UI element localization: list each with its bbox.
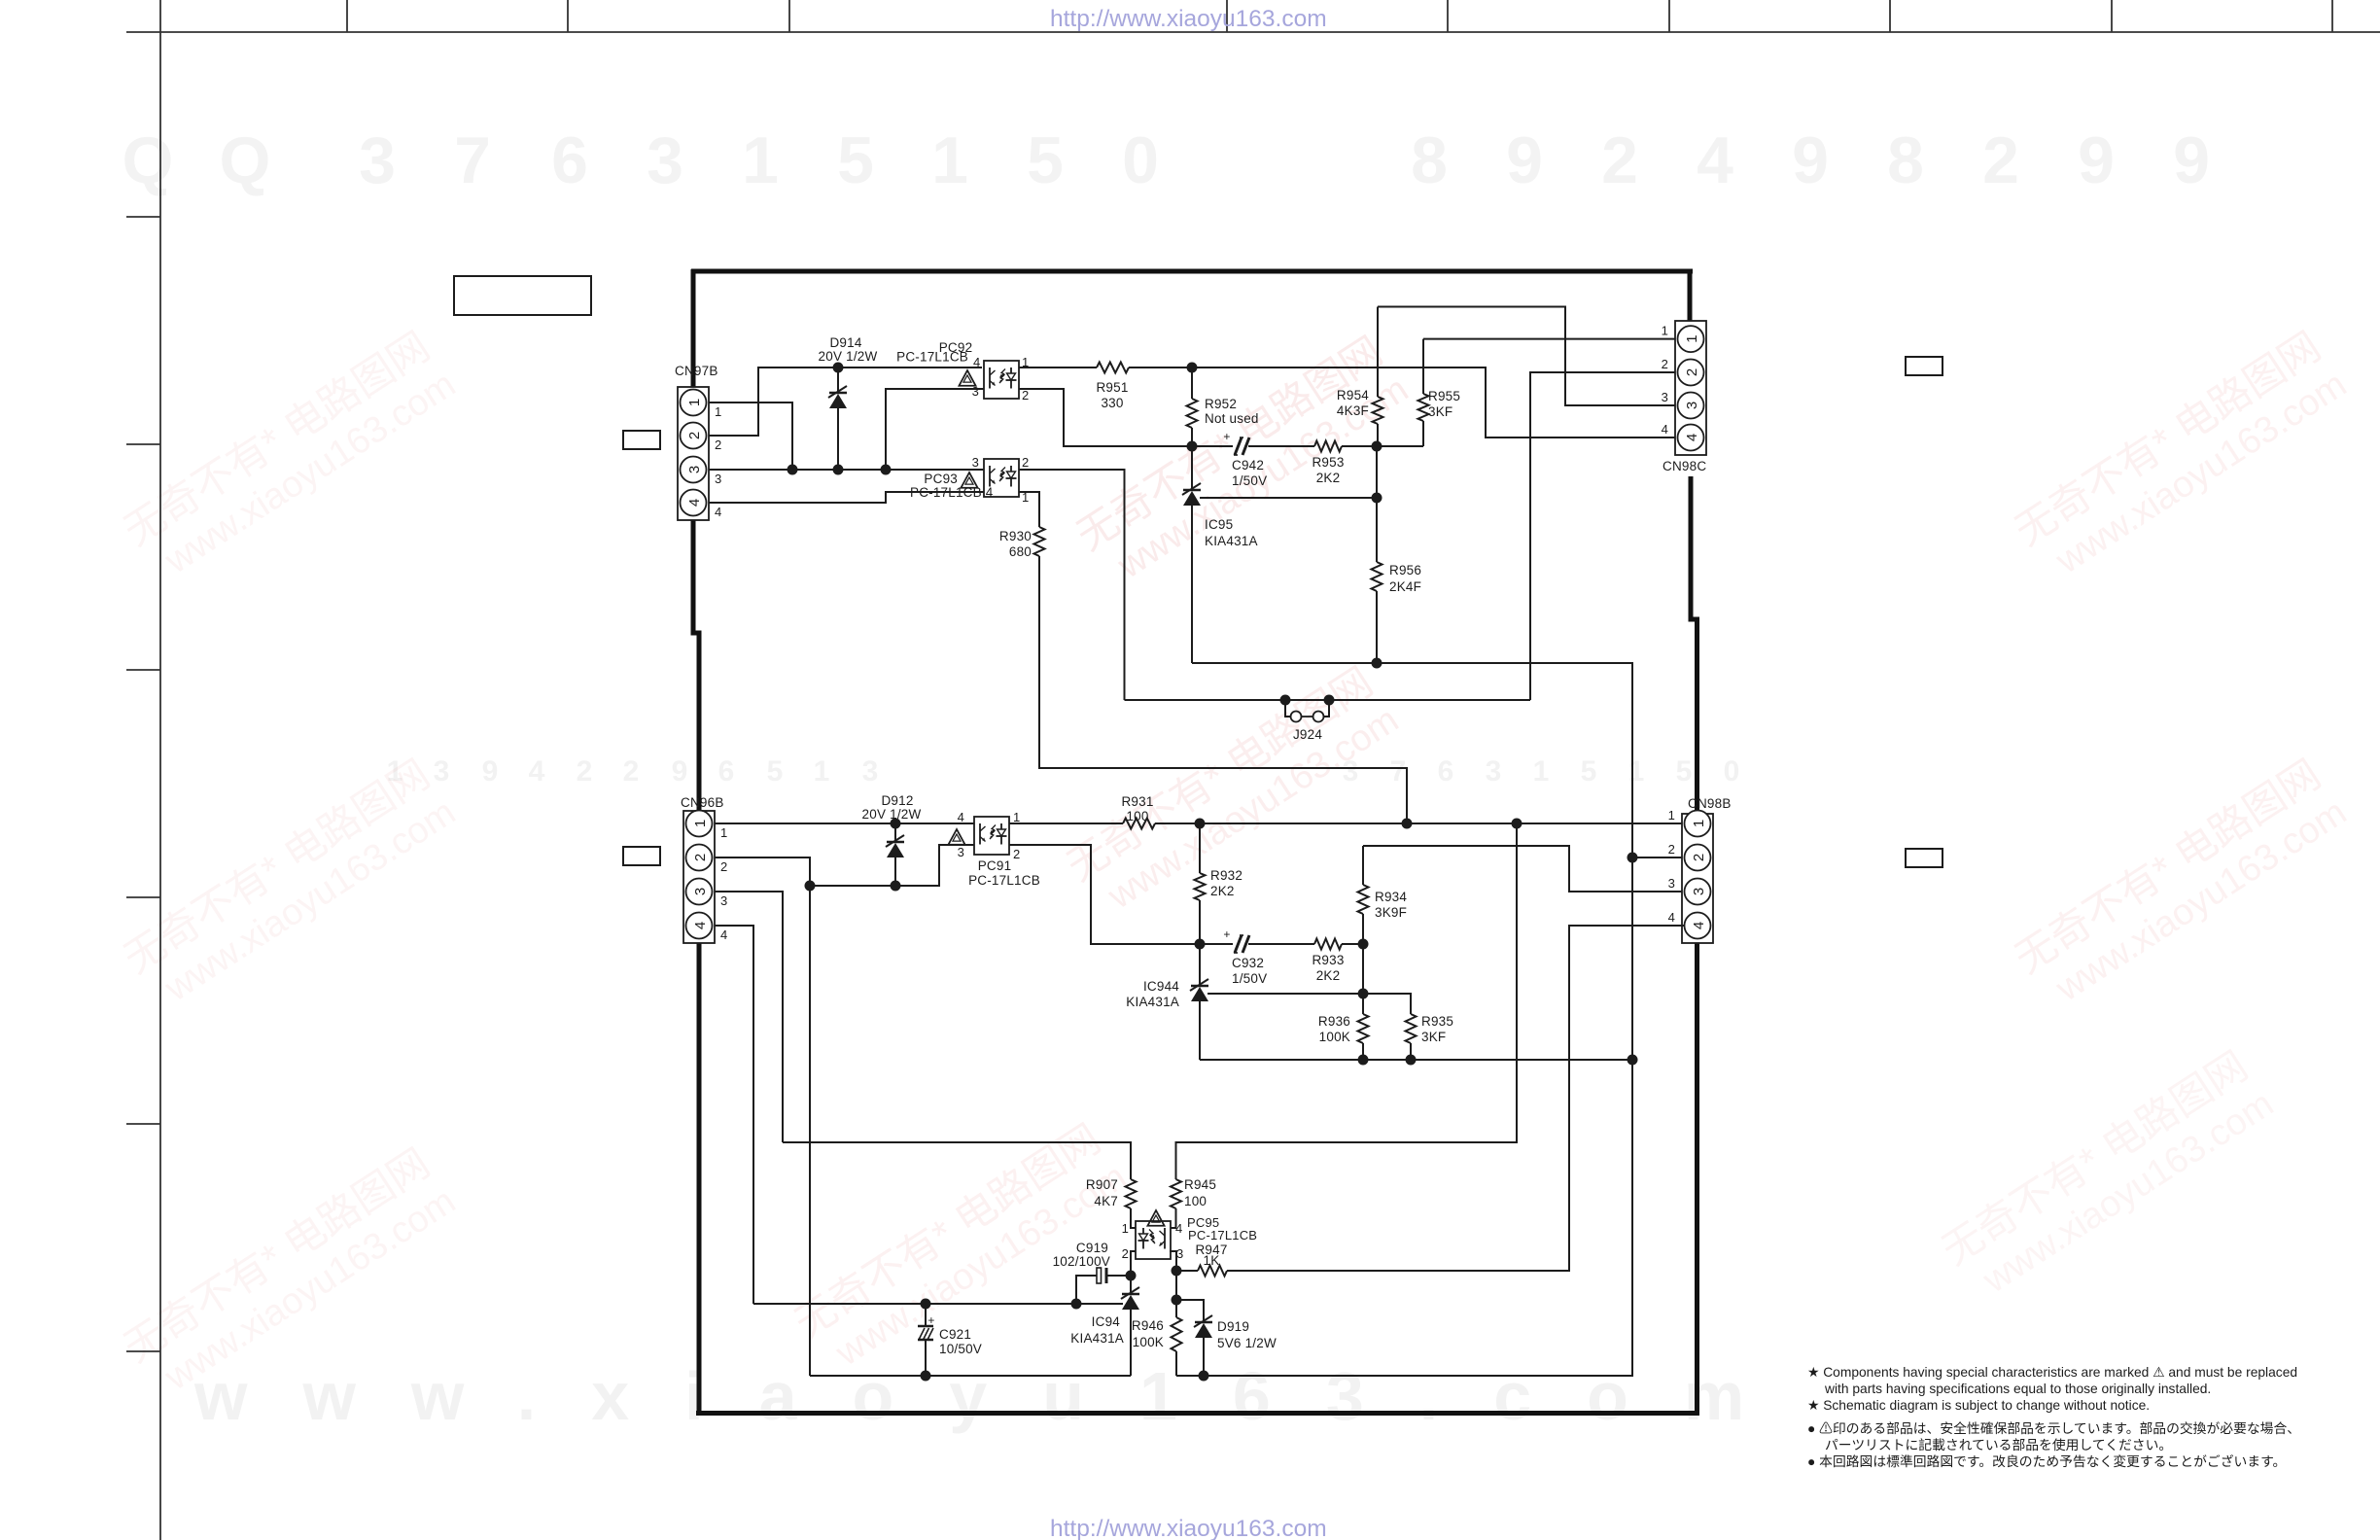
watermark digits row 2 bbox=[387, 755, 1740, 787]
svg-text:4: 4 bbox=[1691, 922, 1707, 929]
svg-text:IC94: IC94 bbox=[1092, 1314, 1121, 1329]
resistor R954 bbox=[1377, 307, 1379, 398]
svg-text:3: 3 bbox=[1486, 755, 1502, 787]
svg-text:R934: R934 bbox=[1375, 890, 1407, 904]
svg-text:3: 3 bbox=[1662, 390, 1668, 404]
svg-text:R952: R952 bbox=[1205, 397, 1237, 411]
svg-text:9: 9 bbox=[482, 755, 499, 787]
svg-text:2: 2 bbox=[1122, 1246, 1129, 1261]
svg-text:5V6 1/2W: 5V6 1/2W bbox=[1217, 1336, 1277, 1350]
svg-text:D919: D919 bbox=[1217, 1319, 1249, 1334]
svg-text:6: 6 bbox=[718, 755, 735, 787]
wire rail B left bbox=[810, 1375, 1131, 1377]
svg-text:PC-17L1CB: PC-17L1CB bbox=[896, 350, 968, 365]
svg-text:R935: R935 bbox=[1421, 1014, 1453, 1029]
svg-text:2: 2 bbox=[1662, 357, 1668, 371]
jumper J924 bbox=[1280, 695, 1291, 706]
warning PC91 bbox=[948, 829, 964, 845]
svg-text:4K7: 4K7 bbox=[1094, 1194, 1118, 1208]
svg-text:3: 3 bbox=[359, 123, 396, 197]
connector CN98B bbox=[1682, 814, 1713, 943]
shunt regulator IC944 bbox=[1199, 944, 1201, 986]
svg-text:1: 1 bbox=[931, 123, 968, 197]
wire PC95 pin2 jog bbox=[1131, 1251, 1136, 1276]
svg-text:4: 4 bbox=[1684, 434, 1700, 441]
top ticks bbox=[346, 0, 348, 32]
svg-text:R945: R945 bbox=[1184, 1177, 1216, 1192]
svg-text:3: 3 bbox=[1684, 402, 1700, 409]
svg-text:R931: R931 bbox=[1121, 794, 1153, 809]
svg-text:http://www.xiaoyu163.com: http://www.xiaoyu163.com bbox=[1050, 6, 1327, 32]
svg-text:9: 9 bbox=[1506, 123, 1543, 197]
svg-text:4: 4 bbox=[529, 755, 545, 787]
svg-text:3KF: 3KF bbox=[1428, 404, 1452, 419]
svg-text:20V 1/2W: 20V 1/2W bbox=[819, 349, 878, 364]
svg-text:CN96B: CN96B bbox=[681, 795, 724, 810]
left ticks bbox=[126, 216, 160, 218]
wire CN98B pin2 column bbox=[1627, 853, 1638, 863]
svg-text:2K2: 2K2 bbox=[1316, 471, 1341, 485]
svg-text:R930: R930 bbox=[999, 529, 1032, 543]
svg-text:4: 4 bbox=[958, 810, 964, 824]
wire pin3 column to R907 bbox=[783, 1142, 1131, 1179]
svg-text:R955: R955 bbox=[1428, 389, 1460, 403]
svg-text:0: 0 bbox=[1724, 755, 1740, 787]
svg-text:9: 9 bbox=[2173, 123, 2210, 197]
svg-text:2: 2 bbox=[1022, 388, 1029, 402]
svg-text:1/50V: 1/50V bbox=[1232, 971, 1267, 986]
svg-text:5: 5 bbox=[1581, 755, 1597, 787]
label box left CN96B bbox=[623, 847, 660, 865]
svg-text:Not used: Not used bbox=[1205, 411, 1259, 426]
label box right CN98B bbox=[1906, 849, 1942, 867]
resistor R952 bbox=[1191, 367, 1193, 399]
svg-text:● ⚠印のある部品は、安全性確保部品を示しています。部品の交: ● ⚠印のある部品は、安全性確保部品を示しています。部品の交換が必要な場合、 bbox=[1807, 1420, 2300, 1436]
svg-text:1: 1 bbox=[686, 399, 703, 406]
zener D919 bbox=[1195, 1321, 1212, 1324]
svg-text:4: 4 bbox=[692, 922, 709, 929]
svg-text:6: 6 bbox=[551, 123, 588, 197]
svg-text:PC-17L1CB: PC-17L1CB bbox=[968, 873, 1040, 888]
capacitor C942 bbox=[1235, 437, 1242, 455]
svg-text:0: 0 bbox=[1122, 123, 1159, 197]
svg-text:330: 330 bbox=[1101, 396, 1123, 410]
svg-text:3K9F: 3K9F bbox=[1375, 905, 1407, 920]
connector CN96B bbox=[683, 811, 715, 943]
connector CN98C bbox=[1675, 321, 1706, 455]
notes bbox=[1807, 1365, 2300, 1469]
capacitor C921 bbox=[925, 1304, 927, 1326]
svg-text:2: 2 bbox=[692, 854, 709, 861]
optocoupler PC95 bbox=[1136, 1221, 1171, 1259]
svg-text:1: 1 bbox=[742, 123, 779, 197]
svg-text:1: 1 bbox=[1691, 820, 1707, 827]
svg-text:KIA431A: KIA431A bbox=[1205, 534, 1258, 548]
svg-text:9: 9 bbox=[2078, 123, 2115, 197]
capacitor C919 bbox=[1107, 1275, 1131, 1277]
resistor R956 bbox=[1376, 446, 1378, 562]
svg-text:2K4F: 2K4F bbox=[1389, 579, 1421, 594]
svg-text:http://www.xiaoyu163.com: http://www.xiaoyu163.com bbox=[1050, 1516, 1327, 1540]
svg-text:PC-17L1CB: PC-17L1CB bbox=[1188, 1228, 1257, 1242]
resistor R955 bbox=[1422, 339, 1424, 394]
wire R955 top to CN98C pin1 bbox=[1423, 338, 1677, 340]
svg-text:8: 8 bbox=[1411, 123, 1448, 197]
resistor R946 bbox=[1172, 1317, 1182, 1351]
svg-text:CN98B: CN98B bbox=[1688, 796, 1732, 811]
svg-text:4: 4 bbox=[1668, 910, 1675, 925]
svg-text:R951: R951 bbox=[1096, 380, 1128, 395]
svg-text:6: 6 bbox=[1438, 755, 1454, 787]
wire PC91 pin2 jog to C932 net bbox=[1009, 845, 1233, 944]
svg-text:4K3F: 4K3F bbox=[1337, 403, 1369, 418]
wire pin1-net drop to R945 bbox=[1176, 823, 1518, 1179]
svg-text:3: 3 bbox=[1691, 888, 1707, 895]
svg-text:2: 2 bbox=[720, 859, 727, 874]
svg-text:3: 3 bbox=[647, 123, 683, 197]
svg-text:3: 3 bbox=[715, 472, 721, 486]
svg-text:680: 680 bbox=[1009, 544, 1032, 559]
svg-text:1: 1 bbox=[1662, 324, 1668, 338]
resistor R947 bbox=[1198, 1266, 1227, 1277]
wire CN97B pin1 bbox=[709, 402, 792, 470]
label box left CN97B bbox=[623, 431, 660, 449]
wire CN98C pin2 long vertical bbox=[1530, 372, 1677, 700]
svg-text:KIA431A: KIA431A bbox=[1070, 1331, 1124, 1346]
optocoupler PC93 bbox=[984, 459, 1019, 497]
pink watermarks bbox=[116, 323, 463, 592]
wire riser to PC92 pin3 bbox=[886, 389, 984, 470]
svg-text:+: + bbox=[1223, 927, 1230, 941]
wire CN96B pin3 column bbox=[715, 892, 783, 1142]
svg-text:4: 4 bbox=[1697, 123, 1733, 197]
svg-text:20V 1/2W: 20V 1/2W bbox=[862, 807, 922, 822]
svg-text:2: 2 bbox=[686, 432, 703, 439]
svg-text:2K2: 2K2 bbox=[1210, 884, 1235, 898]
wire J924 net bbox=[1125, 699, 1531, 701]
svg-text:5: 5 bbox=[767, 755, 784, 787]
wire PC92 pin2 jog to C942 net bbox=[1019, 389, 1233, 446]
svg-text:C919: C919 bbox=[1076, 1241, 1108, 1255]
svg-text:1: 1 bbox=[1013, 810, 1020, 824]
wire rail B right bbox=[1176, 1375, 1632, 1377]
svg-text:with parts having specificatio: with parts having specifications equal t… bbox=[1824, 1382, 2211, 1396]
svg-text:3: 3 bbox=[1668, 876, 1675, 891]
svg-text:IC944: IC944 bbox=[1143, 979, 1179, 994]
junction dots net3 bbox=[787, 465, 798, 475]
label box right CN98C bbox=[1906, 357, 1942, 375]
wire D919 branch bbox=[1176, 1300, 1204, 1322]
svg-text:2K2: 2K2 bbox=[1316, 968, 1341, 983]
svg-text:CN98C: CN98C bbox=[1662, 459, 1706, 473]
wire IC944 ref bbox=[1207, 994, 1411, 1014]
svg-text:C932: C932 bbox=[1232, 956, 1264, 970]
wire PC93 pin2 to J924 net bbox=[1019, 470, 1125, 700]
svg-text:100: 100 bbox=[1184, 1194, 1207, 1208]
svg-text:www.xiaoyu163.com: www.xiaoyu163.com bbox=[193, 1358, 1800, 1434]
svg-text:7: 7 bbox=[1390, 755, 1407, 787]
main schematic border bbox=[691, 269, 1693, 274]
svg-text:4: 4 bbox=[720, 927, 727, 942]
svg-text:2: 2 bbox=[1601, 123, 1638, 197]
svg-text:2: 2 bbox=[1982, 123, 2019, 197]
svg-text:5: 5 bbox=[1676, 755, 1693, 787]
svg-text:4: 4 bbox=[973, 355, 980, 369]
page frame line vertical bbox=[159, 0, 161, 1540]
wire PC95 pin3 column bbox=[1170, 1251, 1176, 1271]
svg-text:3: 3 bbox=[434, 755, 450, 787]
svg-text:PC93: PC93 bbox=[924, 472, 958, 486]
svg-text:9: 9 bbox=[672, 755, 688, 787]
svg-text:D912: D912 bbox=[881, 793, 913, 808]
svg-text:PC-17L1CB 4: PC-17L1CB 4 bbox=[910, 485, 994, 500]
shunt regulator IC94 bbox=[1130, 1276, 1132, 1294]
wire CN96B pin1 net bbox=[715, 822, 974, 824]
svg-text:Q: Q bbox=[220, 123, 271, 197]
wire rail A (ref rail) bbox=[753, 1303, 1123, 1305]
svg-text:★ Components having special c: ★ Components having special characterist… bbox=[1807, 1365, 2297, 1380]
wire CN98B pin4 to R947 bbox=[1227, 926, 1685, 1271]
svg-text:7: 7 bbox=[454, 123, 491, 197]
svg-text:+: + bbox=[927, 1313, 934, 1327]
svg-text:3: 3 bbox=[862, 755, 879, 787]
svg-text:1: 1 bbox=[1684, 334, 1700, 342]
resistor R931 bbox=[1009, 822, 1123, 824]
svg-text:R933: R933 bbox=[1312, 953, 1344, 967]
optocoupler PC91 bbox=[974, 817, 1009, 855]
warning PC93 bbox=[961, 472, 977, 488]
svg-text:R953: R953 bbox=[1312, 455, 1344, 470]
svg-text:IC95: IC95 bbox=[1205, 517, 1233, 532]
svg-text:2: 2 bbox=[1022, 455, 1029, 470]
svg-text:1: 1 bbox=[1122, 1221, 1129, 1236]
svg-text:5: 5 bbox=[1027, 123, 1064, 197]
zener D912 bbox=[894, 823, 896, 842]
svg-text:C942: C942 bbox=[1232, 458, 1264, 472]
resistor R934 bbox=[1362, 846, 1364, 885]
svg-text:3: 3 bbox=[720, 893, 727, 908]
warning PC95 bbox=[1147, 1210, 1164, 1226]
wire CN96B pin2 column down bbox=[809, 886, 811, 1376]
svg-text:4: 4 bbox=[715, 505, 721, 519]
svg-text:8: 8 bbox=[1887, 123, 1924, 197]
wire CN96B pin2 jog bbox=[715, 857, 810, 886]
svg-text:+: + bbox=[1223, 430, 1230, 443]
svg-text:4: 4 bbox=[1662, 422, 1668, 437]
wire top circuit bottom net bbox=[1192, 663, 1632, 857]
svg-text:2: 2 bbox=[1013, 847, 1020, 861]
wire lower bottom net bbox=[1200, 1059, 1632, 1061]
svg-text:2: 2 bbox=[1684, 368, 1700, 376]
svg-text:PC91: PC91 bbox=[978, 858, 1012, 873]
wire R954 top to CN98C pin3 bbox=[1378, 307, 1677, 406]
svg-text:C921: C921 bbox=[939, 1327, 971, 1342]
svg-text:4: 4 bbox=[686, 499, 703, 507]
wire CN96B pin4 column bbox=[715, 926, 753, 1304]
svg-text:3: 3 bbox=[972, 455, 979, 470]
svg-text:● 本回路図は標準回路図です。改良のため予告なく変更すること: ● 本回路図は標準回路図です。改良のため予告なく変更することがございます。 bbox=[1807, 1453, 2286, 1469]
resistor R932 bbox=[1199, 823, 1201, 873]
wire R951 to CN98C pin4 riser bbox=[1129, 367, 1677, 437]
svg-text:1: 1 bbox=[1533, 755, 1550, 787]
svg-text:3: 3 bbox=[686, 466, 703, 473]
shunt regulator IC95 bbox=[1191, 446, 1193, 490]
resistor R907 bbox=[1126, 1179, 1137, 1208]
capacitor C932 bbox=[1235, 935, 1242, 953]
svg-text:1: 1 bbox=[720, 825, 727, 840]
svg-text:2: 2 bbox=[715, 437, 721, 452]
page frame line horizontal bbox=[126, 31, 2380, 33]
resistor R933 bbox=[1248, 943, 1314, 945]
optocoupler PC92 bbox=[984, 361, 1019, 399]
wire IC95 ref bbox=[1200, 497, 1377, 499]
svg-text:1: 1 bbox=[715, 404, 721, 419]
resistor R935 bbox=[1406, 1014, 1417, 1043]
wire net3 CN97B pin3 bbox=[709, 469, 984, 471]
svg-text:102/100V: 102/100V bbox=[1053, 1254, 1110, 1269]
resistor R930 bbox=[1019, 492, 1039, 527]
svg-text:J924: J924 bbox=[1293, 727, 1322, 742]
warning PC92 bbox=[959, 370, 975, 386]
wire R934 top to CN98B pin3 bbox=[1363, 846, 1685, 892]
svg-text:2: 2 bbox=[577, 755, 593, 787]
svg-text:9: 9 bbox=[1792, 123, 1829, 197]
watermark digits row 1 bbox=[122, 123, 2210, 197]
svg-text:3: 3 bbox=[958, 845, 964, 859]
svg-text:R907: R907 bbox=[1086, 1177, 1118, 1192]
wire CN97B pin4 to PC93 pin4 bbox=[709, 492, 984, 503]
svg-text:2: 2 bbox=[1691, 854, 1707, 861]
svg-text:1K: 1K bbox=[1204, 1253, 1220, 1268]
resistor R945 bbox=[1171, 1179, 1181, 1208]
resistor R951 bbox=[1097, 363, 1129, 373]
svg-text:R956: R956 bbox=[1389, 563, 1421, 577]
svg-text:5: 5 bbox=[837, 123, 874, 197]
svg-text:R946: R946 bbox=[1132, 1318, 1164, 1333]
svg-text:R954: R954 bbox=[1337, 388, 1369, 402]
resistor R953 bbox=[1248, 445, 1314, 447]
svg-text:100K: 100K bbox=[1133, 1335, 1164, 1349]
svg-text:KIA431A: KIA431A bbox=[1126, 995, 1179, 1009]
wire CN97B pin2 to top net bbox=[709, 367, 982, 436]
svg-text:1/50V: 1/50V bbox=[1232, 473, 1267, 488]
svg-text:4: 4 bbox=[1175, 1221, 1182, 1236]
resistor R936 bbox=[1362, 944, 1364, 1014]
svg-text:D914: D914 bbox=[829, 335, 861, 350]
svg-text:★ Schematic diagram is subjec: ★ Schematic diagram is subject to change… bbox=[1807, 1398, 2150, 1413]
svg-text:1: 1 bbox=[1668, 808, 1675, 822]
svg-text:2: 2 bbox=[623, 755, 640, 787]
svg-text:100K: 100K bbox=[1319, 1030, 1350, 1044]
svg-text:Q: Q bbox=[122, 123, 174, 197]
wire pin1 net to CN98B bbox=[1155, 822, 1685, 824]
svg-text:2: 2 bbox=[1668, 842, 1675, 857]
svg-text:1: 1 bbox=[1628, 755, 1645, 787]
svg-text:1: 1 bbox=[692, 820, 709, 827]
wire PC92 pin1 to R951 bbox=[1019, 367, 1097, 368]
svg-text:3: 3 bbox=[692, 888, 709, 895]
svg-text:パーツリストに記載されている部品を使用してください。: パーツリストに記載されている部品を使用してください。 bbox=[1825, 1437, 2172, 1452]
svg-text:100: 100 bbox=[1126, 809, 1148, 823]
svg-text:CN97B: CN97B bbox=[675, 364, 718, 378]
label box top bbox=[454, 276, 591, 315]
connector CN97B bbox=[678, 387, 709, 520]
junction dot D914 top bbox=[833, 363, 844, 373]
svg-text:3KF: 3KF bbox=[1421, 1030, 1446, 1044]
svg-text:1: 1 bbox=[814, 755, 830, 787]
zener D914 bbox=[837, 367, 839, 393]
svg-text:R932: R932 bbox=[1210, 868, 1242, 883]
svg-text:3: 3 bbox=[1176, 1246, 1183, 1261]
wire D912 bottom net to PC91 pin3 bbox=[810, 845, 974, 886]
svg-text:10/50V: 10/50V bbox=[939, 1342, 982, 1356]
svg-text:R936: R936 bbox=[1318, 1014, 1350, 1029]
